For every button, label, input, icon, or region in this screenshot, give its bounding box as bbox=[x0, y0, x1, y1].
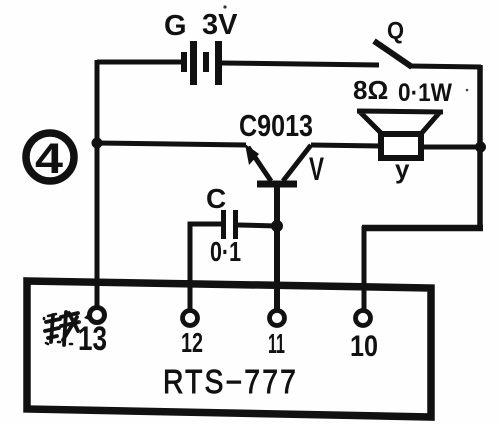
stray ink speck top bbox=[223, 5, 226, 8]
svg-text:11: 11 bbox=[268, 328, 285, 359]
svg-text:RTS−777: RTS−777 bbox=[163, 363, 298, 400]
battery G1 plate short 1 bbox=[181, 52, 187, 72]
svg-text:0·1W: 0·1W bbox=[398, 79, 452, 107]
svg-text:8Ω: 8Ω bbox=[353, 75, 388, 105]
wire: top-left horizontal from left rail to battery bbox=[97, 60, 184, 65]
transistor V emitter with arrow bbox=[248, 147, 271, 181]
wire: left vertical rail bbox=[95, 60, 100, 308]
wire: emitter horizontal wire bbox=[97, 143, 246, 145]
transistor V collector bbox=[283, 145, 311, 181]
svg-text:10: 10 bbox=[350, 330, 378, 363]
IC box RTS-777 bbox=[27, 281, 431, 417]
pin 10 circle bbox=[356, 311, 371, 326]
pin 13 circle bbox=[90, 308, 105, 323]
svg-text:12: 12 bbox=[181, 327, 203, 358]
figure number circled 4 bbox=[26, 133, 74, 181]
wire: speaker left (collector wire) bbox=[311, 145, 381, 146]
wire: right vertical rail bbox=[477, 65, 483, 231]
svg-text:13: 13 bbox=[78, 320, 107, 358]
svg-text:Q: Q bbox=[387, 18, 404, 45]
stray ink speck right bbox=[466, 89, 469, 92]
node: right rail speaker junction bbox=[475, 142, 486, 153]
battery G1 plate long 2 bbox=[215, 41, 222, 85]
battery G1 plate long 1 bbox=[190, 41, 197, 85]
svg-text:C9013: C9013 bbox=[239, 108, 313, 143]
wire: base lead down to pin 11 bbox=[274, 186, 280, 311]
battery G1 plate short 2 bbox=[203, 52, 209, 72]
svg-text:G: G bbox=[164, 10, 187, 42]
pin 12 circle bbox=[183, 311, 198, 326]
svg-text:3V: 3V bbox=[202, 9, 238, 41]
pin 13 tick mark bbox=[84, 308, 95, 322]
capacitor C plate right bbox=[233, 210, 238, 239]
wire: speaker right bbox=[421, 145, 481, 150]
wire: capacitor left lead bbox=[190, 224, 221, 311]
svg-text:y: y bbox=[395, 154, 410, 184]
wire: battery to switch bbox=[222, 63, 379, 65]
svg-text:0·1: 0·1 bbox=[210, 236, 241, 267]
stray ink speck bottom left bbox=[79, 321, 81, 323]
svg-text:4: 4 bbox=[35, 135, 63, 183]
transistor V base bar bbox=[257, 181, 297, 188]
node: left rail junction bbox=[92, 138, 103, 149]
wire: capacitor right lead bbox=[238, 225, 277, 226]
wire: pin 10 lead bbox=[362, 226, 367, 311]
wire: switch to right rail bbox=[410, 66, 481, 67]
switch Q blade bbox=[374, 41, 412, 67]
wire: right rail to pin10 horizontal bbox=[362, 225, 483, 232]
annotation: smudged chinese character bbox=[44, 312, 79, 345]
svg-text:V: V bbox=[309, 151, 324, 187]
svg-text:C: C bbox=[206, 183, 226, 214]
pin 11 circle bbox=[270, 311, 285, 326]
capacitor C plate left bbox=[221, 210, 226, 239]
speaker Y box bbox=[381, 134, 421, 158]
node: capacitor-base junction bbox=[271, 220, 283, 232]
speaker Y horn bbox=[357, 111, 443, 135]
